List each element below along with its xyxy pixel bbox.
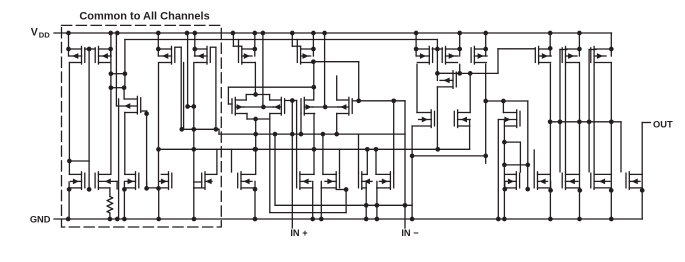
svg-text:V: V — [31, 27, 38, 39]
svg-text:GND: GND — [30, 215, 51, 225]
svg-text:DD: DD — [39, 31, 50, 40]
svg-text:IN +: IN + — [290, 228, 308, 238]
svg-text:OUT: OUT — [653, 120, 673, 130]
svg-text:IN −: IN − — [401, 228, 419, 238]
svg-text:Common to All Channels: Common to All Channels — [79, 11, 209, 23]
